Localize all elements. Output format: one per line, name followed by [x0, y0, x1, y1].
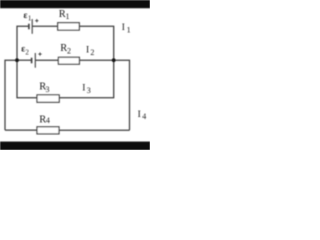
node B junction dot	[112, 58, 116, 62]
wire row4: bottom outer branch with R4	[5, 129, 37, 131]
wire row1: battery E1 to R1	[32, 25, 58, 27]
svg-text:1: 1	[66, 12, 70, 21]
svg-text:I: I	[138, 110, 141, 120]
svg-text:1: 1	[127, 25, 131, 34]
svg-text:2: 2	[67, 46, 71, 55]
wire row2: node A to battery E2	[17, 59, 32, 61]
battery E1 negative short plate	[28, 24, 30, 30]
wire row1 right: R1 to right corner and down to node B	[79, 26, 113, 60]
resistor R2	[58, 57, 79, 64]
svg-text:4: 4	[46, 116, 50, 125]
resistor R1	[58, 23, 80, 30]
svg-text:2: 2	[25, 49, 29, 57]
wire row4 right: R4 to outer right vertical	[59, 129, 130, 131]
plus sign of E1	[35, 19, 38, 22]
svg-text:I: I	[86, 46, 89, 56]
wire row2 right: node B to outer right corner	[114, 60, 130, 130]
wire row2 left edge: node A to outer left corner	[5, 60, 17, 130]
plus sign of E2	[38, 52, 41, 55]
svg-text:3: 3	[87, 86, 91, 95]
svg-text:I: I	[82, 84, 85, 94]
svg-text:2: 2	[90, 48, 94, 57]
top scan bar	[0, 0, 150, 8]
wire row2 right: R2 to node B	[79, 59, 113, 61]
svg-text:ε: ε	[24, 10, 28, 20]
svg-text:4: 4	[142, 112, 146, 121]
battery E2 positive long plate	[34, 53, 36, 68]
wire row3 right: R3 to node B vertical	[59, 60, 113, 97]
wire row2: battery E2 to R2	[35, 59, 58, 61]
wire row1 left: corner to battery E1	[17, 26, 29, 60]
svg-text:I: I	[122, 23, 125, 33]
node A junction dot	[15, 58, 19, 62]
resistor R4	[37, 127, 59, 134]
battery E2 negative short plate	[31, 58, 33, 64]
svg-text:3: 3	[46, 85, 50, 94]
resistor R3	[37, 95, 59, 102]
battery E1 positive long plate	[31, 19, 33, 34]
bottom scan bar	[0, 142, 150, 150]
svg-text:1: 1	[28, 14, 32, 22]
wire row3 left: node A down and to R3	[17, 60, 37, 97]
